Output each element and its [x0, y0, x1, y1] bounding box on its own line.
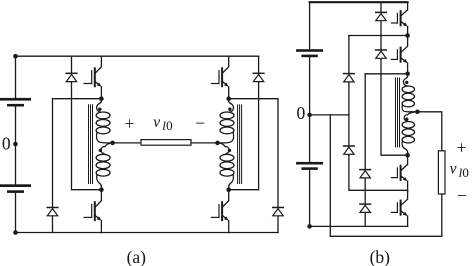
- wire: node1 to Q6 collector: [407, 36, 409, 39]
- transformer T3 core: [396, 78, 400, 147]
- wire: node2 horizontal run (circuit b): [365, 73, 407, 75]
- resistor RL: output load of circuit (a): [141, 140, 191, 146]
- wire: circuit (a) left battery rail middle segment: [15, 107, 17, 185]
- node: circuit (a) top-left rail junction: [13, 54, 18, 59]
- wire: diode D3 branch from top rail down to lower-right node: [229, 56, 259, 190]
- transistor Q5 (top IGBT, circuit b): [391, 2, 407, 26]
- svg-text:0: 0: [166, 118, 173, 133]
- wire: circuit (b) left battery rail upper segment: [309, 2, 311, 49]
- svg-text:v: v: [153, 114, 160, 131]
- polarity dot: T2 upper winding: [228, 108, 231, 111]
- wire: Q6 emitter to node2: [407, 63, 409, 74]
- diode D3 (upper right clamp diode, circuit a): [253, 73, 264, 81]
- svg-text:v: v: [450, 160, 457, 177]
- polarity dot: T3 upper winding: [405, 81, 408, 84]
- diode D9 (top series diode, circuit b): [376, 12, 387, 20]
- wire: series diode column D9/D10 from top rail to node3 (circuit b): [381, 2, 408, 155]
- wire: circuit (a) left battery rail lower segment: [15, 193, 17, 233]
- battery E4 (lower source, circuit b): [296, 162, 323, 170]
- diode D1 (upper left clamp diode, circuit a): [66, 73, 77, 81]
- transformer T2 core: [238, 105, 242, 184]
- transformer T3 lower winding (circuit b): [402, 112, 417, 155]
- diode D2 (lower left clamp diode, circuit a): [47, 208, 58, 216]
- polarity dot: T2 lower winding: [228, 149, 231, 152]
- polarity dot: T1 lower winding: [99, 149, 102, 152]
- wire: diode D1 branch from top rail down to lower-left node: [72, 56, 102, 190]
- wire: circuit (a) left battery rail upper segment: [15, 56, 17, 98]
- transistor Q6 (second IGBT, circuit b): [391, 39, 407, 63]
- transformer T3 upper winding (circuit b): [402, 74, 417, 112]
- node A: Q1 emitter / winding junction: [99, 96, 104, 101]
- transistor Q2 (lower left IGBT, circuit a): [84, 190, 101, 232]
- transformer T1 lower winding (circuit a): [96, 143, 113, 190]
- node D: Q4 collector / winding junction: [226, 187, 231, 192]
- wire: upper-right node horizontal run to diode D4 branch: [229, 99, 278, 233]
- wire: upper-left node horizontal run to diode D2 branch: [53, 99, 102, 233]
- battery E1 (upper source, circuit a): [0, 98, 31, 107]
- polarity dot: T1 upper winding: [98, 108, 101, 111]
- node: circuit (b) bottom-left rail junction: [307, 224, 312, 229]
- svg-text:(a): (a): [127, 247, 147, 266]
- diode D10 (second series diode, circuit b): [376, 50, 387, 58]
- transformer T2 lower winding (mirrored, circuit a): [218, 143, 235, 190]
- wire: circuit (a) top DC rail: [16, 55, 259, 57]
- svg-text:0: 0: [2, 134, 11, 154]
- wire: centre tap to load resistor (left): [113, 142, 141, 144]
- transistor Q4 (lower right IGBT, circuit a): [211, 190, 228, 232]
- wire: Q8 emitter down to negative rail corner: [407, 216, 409, 226]
- transformer T1 core: [89, 105, 93, 184]
- svg-text:+: +: [457, 137, 467, 157]
- node: T3 centre tap: [415, 110, 420, 115]
- node B: Q2 collector / winding junction: [99, 187, 104, 192]
- wire: circuit (b) top DC rail: [310, 1, 408, 3]
- transformer T1 upper winding (circuit a): [96, 99, 113, 143]
- battery E2 (lower source, circuit a): [0, 184, 31, 193]
- wire: circuit (b) left battery rail middle segment: [309, 57, 311, 162]
- wire: load return column from 0 wire down and across: [330, 115, 442, 236]
- node 3: T3 lower end / Q7 collector: [405, 153, 410, 158]
- transformer T2 upper winding (mirrored, circuit a): [218, 99, 235, 143]
- diode D4 (lower right clamp diode, circuit a): [273, 208, 284, 216]
- svg-text:(b): (b): [370, 247, 391, 266]
- node: T1 centre tap: [110, 141, 115, 146]
- diode D8 (lower freewheel diode, circuit b): [360, 204, 371, 212]
- svg-text:0: 0: [297, 103, 306, 123]
- transistor Q7 (third IGBT, circuit b): [391, 157, 407, 181]
- diode D5 (upper clamp diode, circuit b): [344, 74, 355, 82]
- wire: load resistor to right centre tap: [191, 142, 218, 144]
- transistor Q8 (bottom IGBT, circuit b): [391, 192, 407, 216]
- battery E3 (upper source, circuit b): [296, 49, 323, 57]
- wire: neutral point run from 0 node to clamp column: [310, 114, 349, 116]
- resistor RL2: output load of circuit (b): [438, 151, 445, 194]
- wire: circuit (a) bottom DC rail: [16, 232, 279, 234]
- node 0: battery midpoint (circuit b): [307, 113, 312, 118]
- node: T2 centre tap: [215, 141, 220, 146]
- wire: load bottom lead (circuit b): [441, 194, 443, 236]
- node 2: Q6 emitter / winding junction: [405, 72, 410, 77]
- wire: Q7 emitter to node4: [407, 181, 409, 190]
- diode D6 (lower clamp diode, circuit b): [344, 146, 355, 154]
- wire: node3 to Q7 collector: [407, 155, 409, 157]
- wire: node4 to Q8 collector: [407, 190, 409, 191]
- svg-text:−: −: [195, 113, 205, 133]
- wire: node1 horizontal run (circuit b): [349, 35, 408, 37]
- node 1: Q5/Q6 junction: [405, 33, 410, 38]
- wire: freewheel diode column D7/D8 (node2 to negative rail, circuit b): [364, 74, 366, 227]
- wire: circuit (b) left battery rail lower segment: [309, 170, 311, 227]
- svg-text:+: +: [124, 114, 134, 134]
- wire: centre tap to load (circuit b): [417, 112, 441, 151]
- transistor Q1 (upper left IGBT, circuit a): [84, 56, 101, 98]
- node 0: battery midpoint (circuit a): [13, 142, 18, 147]
- wire: clamp diode column D5/D6 (node1 to node4, circuit b): [349, 36, 408, 191]
- svg-text:−: −: [457, 186, 467, 206]
- diode D7 (upper freewheel diode, circuit b): [360, 170, 371, 178]
- wire: negative rail run (battery bottom to Q8 emitter): [310, 225, 408, 227]
- polarity dot: T3 lower winding: [405, 118, 408, 121]
- node: circuit (a) bottom-left rail junction: [13, 230, 18, 235]
- svg-text:0: 0: [462, 165, 469, 180]
- node C: Q3 emitter / winding junction: [226, 96, 231, 101]
- transistor Q3 (upper right IGBT, circuit a): [211, 56, 228, 98]
- wire: Q5 emitter to node1: [407, 27, 409, 36]
